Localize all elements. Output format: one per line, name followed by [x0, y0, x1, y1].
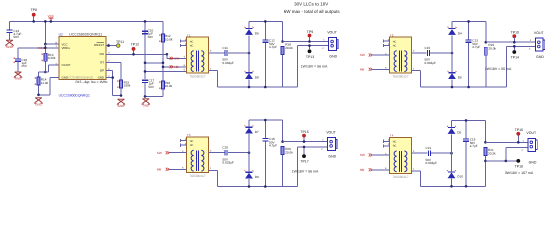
svg-text:TP15: TP15 [300, 130, 308, 134]
svg-text:760390117: 760390117 [392, 75, 408, 79]
wire [44, 65, 59, 73]
transformer T2 [390, 33, 412, 78]
wire [283, 141, 328, 143]
svg-text:NC: NC [393, 40, 397, 43]
node HB [157, 167, 187, 172]
wire [9, 21, 11, 30]
svg-text:T2: T2 [390, 33, 394, 37]
wire [484, 120, 487, 143]
svg-text:GND: GND [98, 76, 104, 80]
connector VOUT [321, 130, 337, 158]
svg-text:VREG: VREG [62, 46, 71, 50]
resistor R19 [484, 43, 496, 55]
wire [485, 55, 487, 87]
svg-text:1W/18V = 56 mA: 1W/18V = 56 mA [485, 67, 512, 71]
capacitor C12 [262, 20, 277, 88]
diode D5 [447, 120, 462, 153]
svg-text:TP17: TP17 [300, 160, 308, 164]
wire [485, 141, 528, 143]
test point TP10 [511, 31, 519, 44]
resistor R21 [484, 147, 496, 155]
node SW [360, 52, 390, 57]
svg-text:4.7µF: 4.7µF [269, 45, 277, 49]
label load [505, 171, 534, 175]
svg-text:D6: D6 [458, 75, 462, 79]
svg-text:C20: C20 [222, 146, 228, 150]
label load [301, 64, 328, 68]
no-connects [180, 138, 186, 147]
wire [282, 55, 284, 88]
wire [506, 46, 535, 87]
test point TP9 [307, 30, 313, 43]
no-connects [383, 38, 389, 47]
svg-text:TP18: TP18 [515, 165, 523, 169]
svg-text:1W/18V = 56 mA: 1W/18V = 56 mA [292, 169, 319, 173]
wire [412, 67, 421, 87]
svg-text:1W/18V = 56 mA: 1W/18V = 56 mA [301, 64, 328, 68]
svg-text:TP8: TP8 [30, 8, 36, 12]
svg-text:TP9: TP9 [307, 30, 313, 34]
svg-text:VREG: VREG [37, 47, 45, 50]
wire [44, 20, 47, 44]
capacitor C15 [425, 46, 437, 65]
svg-text:EN/FLT: EN/FLT [94, 43, 104, 47]
resistor R20 [281, 147, 293, 155]
svg-text:NC: NC [190, 40, 194, 43]
wire [106, 53, 167, 55]
wire [431, 152, 453, 155]
svg-text:C11: C11 [222, 46, 228, 50]
svg-text:0.033µF: 0.033µF [222, 61, 234, 65]
connector VOUT [522, 131, 538, 164]
wire [452, 119, 486, 121]
wire [430, 52, 453, 55]
test point TP17 [300, 146, 308, 164]
wire [209, 167, 218, 187]
wire [144, 89, 163, 98]
svg-text:760390117: 760390117 [189, 174, 205, 178]
resistor R15 [117, 80, 131, 88]
wire [37, 78, 59, 97]
svg-text:NC: NC [190, 140, 194, 143]
ground [14, 72, 22, 81]
node HB [360, 67, 390, 72]
capacitor C17 [142, 78, 155, 96]
node SW [360, 152, 390, 157]
svg-text:D10: D10 [457, 175, 463, 179]
svg-text:SW: SW [360, 153, 365, 157]
transformer T4 [390, 134, 412, 179]
svg-text:C21: C21 [426, 146, 432, 150]
transformer T1 [187, 33, 209, 78]
test point TP15 [300, 130, 308, 143]
svg-text:NC: NC [190, 144, 194, 147]
wire [162, 21, 164, 34]
capacitor C20 [222, 146, 234, 165]
svg-text:OC/DT: OC/DT [62, 63, 71, 67]
pin numbers [56, 41, 111, 77]
wire [485, 21, 488, 43]
no-connects [180, 38, 186, 47]
wire [249, 119, 283, 121]
svg-text:VCC: VCC [48, 14, 55, 18]
svg-text:11.0k: 11.0k [41, 81, 49, 85]
wire [209, 50, 225, 53]
svg-text:C15: C15 [425, 46, 431, 50]
wire [106, 71, 113, 96]
capacitor C14 [7, 29, 22, 40]
svg-text:D9: D9 [255, 31, 259, 35]
svg-text:EP: EP [100, 69, 104, 73]
wire [44, 44, 46, 72]
wire [281, 120, 284, 143]
wire [218, 86, 298, 88]
wire [452, 20, 486, 22]
svg-text:VOUT: VOUT [327, 30, 338, 34]
svg-text:GND: GND [118, 104, 124, 108]
svg-text:TP11: TP11 [116, 40, 124, 44]
svg-text:UCC25800DQNRQ1: UCC25800DQNRQ1 [66, 76, 94, 80]
svg-text:25V: 25V [21, 64, 27, 68]
wire [144, 62, 165, 65]
ground [117, 99, 125, 108]
resistor R18 [281, 42, 293, 54]
wire [10, 20, 164, 22]
svg-text:NC: NC [190, 44, 194, 47]
svg-text:D7: D7 [255, 130, 259, 134]
diode D4 [447, 21, 462, 53]
svg-text:0.26k: 0.26k [48, 56, 56, 60]
label fsw [76, 80, 109, 84]
node SW [157, 150, 187, 155]
svg-text:UCC25800DQNRQ1: UCC25800DQNRQ1 [69, 32, 102, 36]
wire [113, 88, 123, 97]
wire [298, 46, 329, 87]
node SW [170, 56, 186, 61]
svg-text:20.3k: 20.3k [488, 151, 496, 155]
wire [412, 168, 421, 187]
wire [162, 42, 164, 82]
capacitor C18 [262, 119, 277, 188]
ground [35, 98, 43, 107]
node HB [170, 64, 186, 69]
capacitor C21 [426, 146, 438, 165]
wire [144, 69, 187, 73]
connector VOUT [529, 31, 545, 59]
svg-text:SW: SW [174, 57, 179, 61]
capacitor C16 [14, 48, 28, 72]
ground [6, 40, 14, 49]
wire [283, 41, 329, 43]
wire [282, 155, 284, 187]
svg-text:HB: HB [360, 168, 364, 172]
svg-text:50V: 50V [148, 85, 154, 89]
svg-text:50V: 50V [148, 35, 154, 39]
svg-text:760390117: 760390117 [189, 75, 205, 79]
wire [298, 147, 328, 187]
svg-text:GND: GND [143, 103, 149, 107]
resistor R14 [35, 77, 49, 85]
svg-text:50V: 50V [13, 35, 19, 39]
node VREG [18, 47, 59, 51]
test point TP8 [30, 8, 36, 23]
wire [421, 185, 486, 187]
diode D6 [447, 53, 462, 88]
diode D9 [244, 21, 259, 53]
svg-text:0.033µF: 0.033µF [222, 161, 234, 165]
svg-text:10.0k: 10.0k [165, 37, 173, 41]
wire [484, 148, 528, 163]
ground [142, 99, 150, 108]
svg-text:GND: GND [15, 77, 21, 81]
wire [106, 44, 116, 47]
svg-text:D4: D4 [458, 31, 462, 35]
svg-text:D5: D5 [457, 130, 461, 134]
wire [144, 20, 147, 79]
capacitor C19 [463, 119, 478, 188]
svg-text:NC: NC [393, 145, 397, 148]
svg-text:GND: GND [536, 55, 544, 59]
svg-text:10.0k: 10.0k [165, 84, 173, 88]
svg-text:4.7µF: 4.7µF [472, 45, 480, 49]
wire [106, 63, 121, 81]
svg-text:100k: 100k [124, 84, 131, 88]
wire [412, 150, 428, 153]
no-connects [383, 139, 389, 148]
wire [421, 86, 507, 88]
svg-text:D9: D9 [255, 175, 259, 179]
svg-text:T4: T4 [390, 134, 394, 138]
resistor R13 [42, 53, 56, 61]
wire [412, 50, 427, 53]
node HB [360, 167, 390, 172]
svg-text:0.033µF: 0.033µF [425, 61, 437, 65]
wire [209, 149, 225, 152]
svg-text:VOUT: VOUT [326, 130, 337, 134]
svg-text:HB: HB [174, 65, 178, 69]
svg-text:UCC25800DQNRQ1: UCC25800DQNRQ1 [59, 94, 90, 98]
wire [228, 52, 250, 55]
svg-text:D8: D8 [255, 75, 259, 79]
svg-text:4.7µF: 4.7µF [470, 144, 478, 148]
svg-text:GND: GND [35, 102, 41, 106]
wire [486, 41, 536, 43]
svg-text:SW: SW [99, 52, 104, 56]
wire [218, 186, 298, 188]
svg-text:SW: SW [157, 151, 162, 155]
capacitor C11 [222, 46, 234, 65]
svg-text:4.7µF: 4.7µF [269, 144, 277, 148]
label load [292, 169, 319, 173]
diode D8 [244, 53, 259, 88]
power VCC [48, 14, 55, 23]
svg-text:GND: GND [328, 154, 336, 158]
transformer T3 [187, 133, 209, 178]
test point TP11 [116, 40, 124, 47]
label UCC25800DQNRQ1 [59, 94, 90, 98]
wire [44, 43, 59, 46]
svg-text:NC: NC [393, 44, 397, 47]
wire [106, 76, 114, 79]
wire [249, 20, 283, 22]
svg-text:30V LLCs to 18V: 30V LLCs to 18V [294, 1, 328, 6]
svg-text:R15 --&gt; fsw = 1MHz: R15 --&gt; fsw = 1MHz [76, 80, 109, 84]
svg-text:T1: T1 [187, 33, 191, 37]
svg-text:TP13: TP13 [306, 55, 314, 59]
diode D7 [244, 120, 259, 153]
resistor R12 [159, 34, 173, 42]
svg-text:SW: SW [360, 53, 365, 57]
svg-text:RT: RT [100, 61, 104, 65]
wire [39, 72, 46, 95]
svg-text:HB: HB [360, 68, 364, 72]
wire [281, 21, 284, 42]
wire [209, 67, 218, 87]
wire [162, 66, 187, 69]
resistor R16 [159, 81, 172, 89]
svg-text:6W max - total of all outputs: 6W max - total of all outputs [284, 9, 341, 14]
capacitor C13 [465, 20, 480, 88]
test point TP13 [306, 44, 314, 59]
svg-text:20.0k: 20.0k [285, 46, 293, 50]
wire [228, 151, 250, 154]
wire [166, 53, 187, 58]
svg-text:760390117: 760390117 [392, 175, 408, 179]
label load [485, 67, 512, 71]
svg-text:TP12: TP12 [131, 42, 139, 46]
svg-text:0.033µF: 0.033µF [426, 161, 438, 165]
label subtitle [284, 9, 341, 14]
svg-text:TP16: TP16 [515, 128, 523, 132]
diode D9 [244, 153, 259, 188]
svg-text:HB: HB [157, 168, 161, 172]
label title [294, 1, 328, 6]
svg-text:VOUT: VOUT [526, 131, 537, 135]
connector VOUT [322, 30, 338, 58]
test point TP18 [515, 159, 523, 169]
svg-text:T3: T3 [187, 133, 191, 137]
test point TP12 [131, 42, 139, 55]
svg-text:NC: NC [393, 141, 397, 144]
svg-text:TP14: TP14 [511, 56, 519, 60]
svg-text:GND: GND [6, 45, 12, 49]
capacitor C10 [142, 28, 154, 38]
svg-text:U2: U2 [59, 32, 63, 36]
svg-text:GND: GND [529, 161, 537, 165]
svg-text:20.0k: 20.0k [488, 47, 496, 51]
svg-text:GND: GND [329, 54, 337, 58]
diode D10 [447, 153, 463, 187]
svg-text:TP10: TP10 [511, 31, 519, 35]
op-amp U2 UCC25800DQNRQ1 [59, 32, 106, 79]
svg-text:3W/18V = 167 mA: 3W/18V = 167 mA [505, 171, 534, 175]
test point TP14 [511, 45, 519, 60]
svg-text:20.0k: 20.0k [285, 151, 293, 155]
svg-text:VOUT: VOUT [534, 31, 545, 35]
test point TP16 [515, 128, 523, 144]
wire [484, 155, 486, 186]
